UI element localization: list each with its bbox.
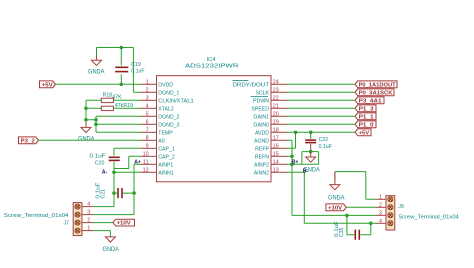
junction C35 left (345, 214, 349, 218)
wire +10V to J9 pin2 (346, 206, 376, 208)
wire DGND_2 pin5 (96, 115, 141, 117)
wire AINP1 pin11 A+ (134, 164, 141, 214)
net label P0_3A1SCK (355, 89, 394, 97)
svg-text:21: 21 (273, 103, 279, 109)
svg-text:8: 8 (146, 135, 149, 141)
svg-text:P0_1A1DOUT: P0_1A1DOUT (359, 82, 397, 88)
capacitor C21 (114, 188, 134, 198)
pin 4 XTAL2 (141, 103, 174, 112)
svg-text:16: 16 (273, 143, 279, 149)
svg-text:C20: C20 (95, 161, 105, 167)
svg-text:GNDA: GNDA (328, 194, 345, 201)
svg-text:J7: J7 (64, 221, 70, 227)
svg-text:ADS1232IPWR: ADS1232IPWR (185, 63, 239, 69)
svg-text:DVDD: DVDD (158, 82, 173, 88)
ground GNDA top-left (88, 56, 105, 76)
svg-text:SCLK: SCLK (255, 90, 269, 96)
svg-text:C19: C19 (131, 62, 141, 68)
wire pin 19 to P1_0 (287, 123, 355, 125)
svg-text:+5V: +5V (359, 130, 370, 136)
svg-text:22: 22 (273, 95, 279, 101)
svg-text:14: 14 (273, 159, 279, 165)
wire pin 22 to P3_4A1 (287, 99, 355, 101)
wire GNDA top rail (97, 48, 141, 93)
wire R18 leads (86, 99, 141, 101)
svg-text:2: 2 (379, 202, 382, 208)
svg-text:12: 12 (143, 167, 149, 173)
pin 14 AINP2 (254, 159, 287, 168)
svg-text:GNDA: GNDA (88, 69, 105, 76)
wire CAP_1 pin9 (114, 148, 141, 155)
wire CAP_2 pin10 (114, 156, 141, 168)
junction DGND b (94, 123, 98, 127)
svg-text:B+: B+ (292, 160, 299, 166)
svg-text:0.1uF: 0.1uF (319, 144, 332, 150)
svg-text:P1_0: P1_0 (359, 122, 374, 128)
svg-text:5: 5 (146, 111, 149, 117)
pin 17 AGND (254, 135, 287, 144)
wire pin 24 to P0_1A1DOUT (287, 83, 355, 85)
wire AVDD pin18 to +5V (287, 131, 355, 133)
capacitor C20 (109, 157, 120, 172)
ground GNDA below J7 (103, 237, 120, 253)
svg-text:0.1uF: 0.1uF (131, 68, 144, 74)
wire AINP2 pin14 B+ (287, 163, 319, 165)
pin 21 SPEED (251, 103, 287, 112)
svg-text:AINP2: AINP2 (254, 162, 269, 168)
pin 22 PDWN (251, 95, 288, 104)
svg-text:REFN: REFN (255, 154, 269, 160)
net label +10V right (326, 204, 346, 212)
svg-text:18: 18 (273, 127, 279, 133)
pin 16 REFP (255, 143, 287, 152)
junction C22 bottom (309, 150, 313, 154)
IC IC4 ADS1232IPWR body (157, 76, 272, 182)
svg-text:Screw_Terminal_01x04: Screw_Terminal_01x04 (4, 213, 69, 219)
wire DGND verticals (86, 116, 96, 132)
net label +5V right (355, 129, 371, 137)
svg-text:PDWN: PDWN (253, 98, 269, 104)
svg-text:REFP: REFP (255, 146, 269, 152)
net label +10V left (113, 219, 135, 227)
svg-text:17: 17 (273, 135, 279, 141)
junction R19 left (84, 107, 88, 111)
svg-text:AINP1: AINP1 (158, 162, 173, 168)
svg-text:A0: A0 (158, 138, 164, 144)
wire DGND_3 pin6 (96, 123, 141, 125)
net label P1_1 (355, 113, 376, 121)
svg-text:CLKIN/XTAL1: CLKIN/XTAL1 (158, 98, 194, 104)
svg-text:1: 1 (146, 79, 149, 85)
svg-text:4: 4 (146, 103, 149, 109)
svg-text:23: 23 (273, 87, 279, 93)
wire REFN pin15 (287, 155, 292, 157)
wire J7 pin3 to A+ net (93, 214, 134, 216)
pin 13 AINN2 (254, 167, 287, 176)
svg-text:GNDA: GNDA (78, 135, 95, 142)
pin 12 AINN1 (141, 167, 174, 176)
pin 23 SCLK (255, 87, 287, 96)
pin 19 GAIN0 (253, 119, 287, 128)
svg-text:P1_1: P1_1 (359, 114, 374, 120)
svg-text:J9: J9 (398, 204, 404, 210)
svg-text:P0_3A1SCK: P0_3A1SCK (359, 90, 393, 96)
svg-text:DRDY/DOUT: DRDY/DOUT (233, 82, 270, 88)
pin 1 DVDD (141, 79, 174, 88)
svg-text:3: 3 (87, 210, 90, 216)
svg-text:4: 4 (379, 218, 382, 224)
svg-text:6: 6 (146, 119, 149, 125)
wire AINN2 pin13 B- (287, 172, 376, 223)
svg-text:A+: A+ (134, 160, 141, 166)
pin 8 A0 (141, 135, 165, 144)
pin 3 CLKIN/XTAL1 (141, 95, 194, 104)
wire pin 23 to P0_3A1SCK (287, 91, 355, 93)
svg-text:GAIN1: GAIN1 (253, 114, 269, 120)
wire R19 leads (86, 107, 141, 109)
capacitor C22 (305, 132, 316, 151)
ground GNDA mid-left (78, 122, 95, 142)
wire pin 20 to P1_1 (287, 115, 355, 117)
svg-text:SPEED: SPEED (251, 106, 269, 112)
ground GNDA near J9 (328, 172, 345, 202)
svg-text:C35: C35 (339, 227, 345, 237)
svg-text:+10V: +10V (328, 205, 342, 211)
capacitor C35 (347, 215, 371, 239)
wire +5V to DVDD pin 1 (56, 83, 141, 85)
wire TEMP pin7 (96, 131, 141, 133)
wire P3_2 to A0 pin 8 (39, 139, 141, 141)
svg-text:3: 3 (146, 95, 149, 101)
wire pin 21 to P1_3 (287, 107, 355, 109)
pin 9 CAP_1 (141, 143, 175, 152)
svg-text:AINN1: AINN1 (158, 170, 173, 176)
svg-text:9: 9 (146, 143, 149, 149)
pin 18 AVDD (255, 127, 287, 136)
wire +5V branch to REFP pin16 (287, 132, 296, 148)
junction C21 right (132, 191, 136, 195)
resistor R19 (101, 106, 113, 110)
pin 20 GAIN1 (253, 111, 287, 120)
svg-text:1: 1 (87, 226, 90, 232)
net label P3_4A1 (355, 97, 384, 105)
wire J7 pin1 to GNDA (93, 231, 110, 237)
wire J7 pin4 to A- net (93, 206, 114, 208)
svg-text:DGND_1: DGND_1 (158, 90, 179, 96)
net label +5V (40, 81, 56, 89)
svg-text:4: 4 (87, 202, 90, 208)
junction C19 bottom on +5V wire (120, 83, 124, 87)
wire AGND loop (302, 152, 319, 165)
capacitor C19 (115, 48, 128, 85)
pin 5 DGND_2 (141, 111, 180, 120)
svg-text:15: 15 (273, 151, 279, 157)
svg-text:CAP_1: CAP_1 (158, 146, 175, 152)
svg-text:7: 7 (146, 127, 149, 133)
junction DGND a (94, 118, 98, 122)
svg-text:2: 2 (146, 87, 149, 93)
junction A- net (112, 171, 116, 175)
net label P3_2 (19, 137, 39, 145)
ground GNDA right of IC (303, 152, 320, 174)
net label P0_1A1DOUT (355, 81, 397, 89)
svg-text:R18: R18 (103, 92, 113, 98)
svg-text:10: 10 (143, 151, 149, 157)
junction C19 top (120, 46, 124, 50)
wire GNDA to J9 pin1 (335, 172, 376, 200)
svg-text:XTAL2: XTAL2 (158, 106, 174, 112)
pin 7 TEMP (141, 127, 174, 136)
svg-text:TEMP: TEMP (158, 130, 173, 136)
svg-text:19: 19 (273, 119, 279, 125)
svg-text:11: 11 (143, 159, 149, 165)
junction C22 top (309, 131, 313, 135)
svg-text:1: 1 (379, 194, 382, 200)
wire AINN1 pin12 A- (114, 172, 141, 206)
junction REFN (290, 155, 294, 159)
wire GNDA rail left (85, 100, 87, 122)
svg-text:P3_2: P3_2 (21, 138, 35, 144)
pin 2 DGND_1 (141, 87, 180, 96)
svg-text:AVDD: AVDD (255, 130, 269, 136)
svg-text:+5V: +5V (42, 82, 53, 88)
net label P1_0 (355, 121, 376, 128)
svg-text:B-: B- (303, 169, 309, 175)
pin 6 DGND_3 (141, 119, 180, 128)
connector J9 Screw_Terminal_01x04 (376, 194, 395, 230)
svg-text:3: 3 (379, 210, 382, 216)
svg-text:+10V: +10V (117, 221, 131, 227)
junction +5V branch (294, 131, 298, 135)
svg-text:AINN2: AINN2 (254, 170, 269, 176)
svg-text:24: 24 (273, 79, 279, 85)
wire AGND pin17 down (287, 140, 292, 215)
svg-text:C22: C22 (319, 137, 329, 143)
pin 11 AINP1 (141, 159, 174, 168)
connector J7 Screw_Terminal_01x04 (73, 202, 93, 236)
wire AGND to J9 pin3 (292, 214, 376, 216)
svg-text:IC4: IC4 (207, 57, 216, 63)
pin 24 DRDY/DOUT (233, 79, 288, 88)
junction AINP2 (290, 163, 294, 167)
net label P1_3 (355, 105, 376, 113)
svg-text:13: 13 (273, 167, 279, 173)
svg-text:GNDA: GNDA (103, 246, 120, 253)
svg-text:DGND_2: DGND_2 (158, 114, 179, 120)
svg-text:P1_3: P1_3 (359, 106, 374, 112)
svg-text:0.1uF: 0.1uF (90, 153, 106, 159)
svg-text:P3_4A1: P3_4A1 (359, 98, 382, 104)
junction C35 right (369, 222, 373, 226)
svg-text:CAP_2: CAP_2 (158, 154, 175, 160)
pin 15 REFN (255, 151, 287, 160)
svg-text:AGND: AGND (254, 138, 269, 144)
svg-text:2: 2 (87, 218, 90, 224)
svg-text:20: 20 (273, 111, 279, 117)
svg-text:GAIN0: GAIN0 (253, 122, 269, 128)
junction C21 left (112, 191, 116, 195)
svg-text:C21: C21 (101, 189, 107, 199)
svg-text:Screw_Terminal_01x04: Screw_Terminal_01x04 (398, 214, 459, 220)
pin 10 CAP_2 (141, 151, 175, 160)
svg-text:DGND_3: DGND_3 (158, 122, 179, 128)
resistor R18 (101, 98, 113, 102)
junction rail DGND tap (84, 118, 88, 122)
svg-text:A-: A- (102, 169, 108, 175)
wire J7 pin2 to +10V (93, 222, 113, 224)
svg-text:47K: 47K (112, 94, 122, 100)
